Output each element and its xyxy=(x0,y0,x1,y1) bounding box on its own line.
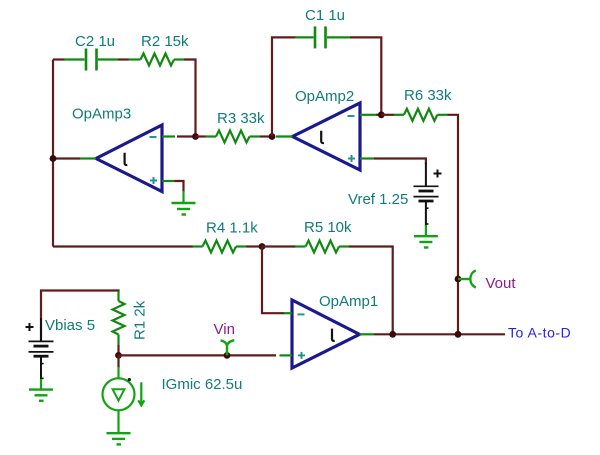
wire R5 to OpAmp1 output node xyxy=(349,247,393,335)
svg-text:R4 1.1k: R4 1.1k xyxy=(206,219,258,236)
wire node to R5 xyxy=(262,245,296,247)
wire node to IGmic xyxy=(117,355,119,368)
resistor R4 xyxy=(193,241,247,253)
wire OpAmp3 output to left vertical xyxy=(53,157,80,159)
svg-text:OpAmp3: OpAmp3 xyxy=(72,106,131,123)
wire R3 to OpAmp2 output node xyxy=(260,135,272,137)
resistor R2 xyxy=(129,54,185,66)
junction node R1/IGmic/Vin row xyxy=(115,352,122,359)
svg-text:C1 1u: C1 1u xyxy=(305,7,345,24)
capacitor C2 xyxy=(64,49,118,71)
svg-text:R1 2k: R1 2k xyxy=(132,300,149,340)
svg-text:C2 1u: C2 1u xyxy=(75,33,115,50)
ground under Vref xyxy=(414,225,438,248)
wire C2 to R2 xyxy=(118,58,129,60)
resistor R1 (vertical) xyxy=(113,291,125,345)
op-amp U3 OpAmp3 xyxy=(80,125,175,192)
net marker Vin xyxy=(221,340,235,355)
ground at OpAmp3 plus xyxy=(172,191,196,215)
wire OpAmp2 plus to Vref xyxy=(374,159,426,165)
wire top row left (to C2) xyxy=(53,58,65,60)
svg-text:R6 33k: R6 33k xyxy=(404,87,452,104)
svg-text:Vout: Vout xyxy=(486,275,517,292)
junction node R4/R5 xyxy=(259,243,266,250)
junction node at OpAmp2 output xyxy=(269,133,276,140)
wire Vbias top xyxy=(41,291,119,342)
voltage source Vref (battery) xyxy=(414,163,442,226)
junction node Vin xyxy=(224,352,231,359)
svg-text:Vin: Vin xyxy=(214,321,235,338)
junction node at OpAmp2 minus xyxy=(378,111,385,118)
junction node at OpAmp3 minus xyxy=(192,133,199,140)
resistor R3 xyxy=(206,131,261,143)
svg-text:Vref 1.25: Vref 1.25 xyxy=(348,191,408,208)
svg-text:OpAmp1: OpAmp1 xyxy=(319,293,378,310)
wire OpAmp3 minus stub to node xyxy=(177,135,196,137)
junction node Vout rail at output xyxy=(455,331,462,338)
wire R2 to OpAmp3 minus node xyxy=(184,60,196,137)
op-amp U1 OpAmp1 xyxy=(280,300,375,368)
svg-text:R2 15k: R2 15k xyxy=(141,33,189,50)
wire R6 to right vertical (Vout rail) xyxy=(448,115,459,334)
junction node feedback at output xyxy=(389,331,396,338)
wire C1 left vertical xyxy=(272,37,296,136)
wire R4 to node xyxy=(246,245,262,247)
wire OpAmp2 minus stub xyxy=(376,114,381,116)
wire node to OpAmp1 minus xyxy=(262,247,285,314)
wire OpAmp1 output row xyxy=(374,333,505,335)
ground under IGmic xyxy=(107,433,131,444)
wire Vin row xyxy=(119,354,277,356)
wire R1 bottom to node xyxy=(117,345,119,355)
svg-text:OpAmp2: OpAmp2 xyxy=(295,88,354,105)
current source IGmic xyxy=(103,367,145,433)
svg-text:IGmic 62.5u: IGmic 62.5u xyxy=(162,376,243,393)
op-amp U2 OpAmp2 xyxy=(276,103,376,170)
junction node Vout tap xyxy=(455,276,462,283)
svg-text:R3 33k: R3 33k xyxy=(217,110,265,127)
resistor R6 xyxy=(394,109,448,121)
wire left vertical (OpAmp3 output to R4 row) xyxy=(52,60,54,247)
wire node to R6 xyxy=(381,114,394,116)
junction node at OpAmp3 output xyxy=(50,155,57,162)
ground under Vbias xyxy=(29,379,53,401)
net marker Vout xyxy=(458,271,476,288)
voltage source Vbias (battery) xyxy=(26,318,54,380)
resistor R5 xyxy=(295,241,349,253)
wire OpAmp3 plus to ground xyxy=(175,181,184,192)
capacitor C1 xyxy=(295,26,350,48)
wire node to R3 xyxy=(196,135,207,137)
wire C1 right vertical to OpAmp2 minus node xyxy=(350,37,381,114)
svg-text:R5 10k: R5 10k xyxy=(304,219,352,236)
svg-text:To A-to-D: To A-to-D xyxy=(508,325,571,341)
svg-text:Vbias 5: Vbias 5 xyxy=(45,317,95,334)
wire R4 row (left vertical to R4) xyxy=(53,245,194,247)
